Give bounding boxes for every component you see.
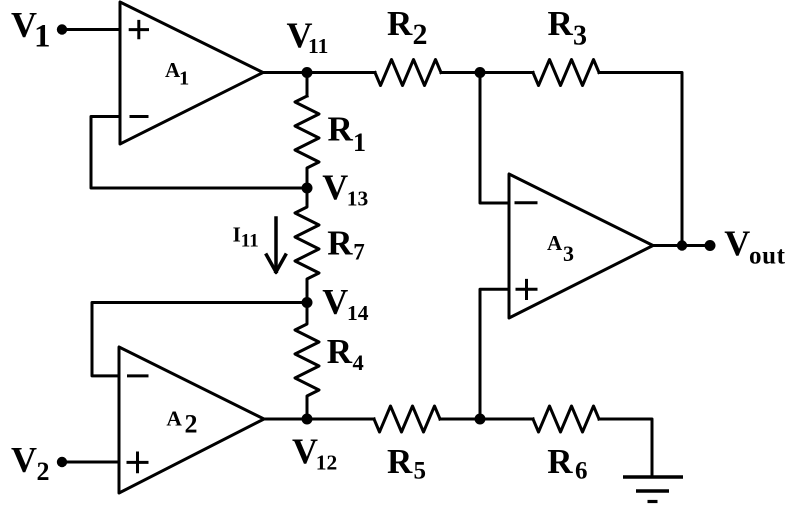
svg-text:out: out [749, 243, 786, 270]
svg-text:5: 5 [414, 458, 427, 485]
svg-text:11: 11 [308, 34, 328, 58]
svg-text:V: V [322, 281, 348, 321]
svg-text:6: 6 [575, 458, 588, 485]
svg-text:1: 1 [353, 128, 366, 157]
svg-text:2: 2 [37, 457, 50, 486]
svg-text:1: 1 [179, 68, 189, 90]
svg-text:A: A [166, 407, 182, 431]
svg-text:14: 14 [347, 301, 369, 325]
svg-text:R: R [328, 110, 354, 149]
svg-text:1: 1 [34, 18, 51, 54]
svg-text:R: R [327, 332, 353, 371]
svg-text:R: R [327, 224, 353, 263]
svg-text:V: V [322, 167, 348, 207]
svg-text:3: 3 [573, 20, 587, 51]
svg-text:R: R [387, 442, 413, 481]
svg-text:V: V [292, 431, 318, 471]
svg-text:R: R [548, 4, 574, 43]
svg-text:3: 3 [563, 241, 574, 266]
svg-text:R: R [547, 442, 573, 481]
svg-text:13: 13 [347, 187, 369, 211]
svg-text:I: I [233, 223, 241, 247]
svg-text:R: R [387, 4, 413, 43]
svg-text:V: V [11, 440, 37, 480]
svg-text:2: 2 [413, 18, 428, 51]
svg-text:V: V [724, 223, 750, 263]
svg-text:7: 7 [353, 240, 365, 265]
svg-text:12: 12 [316, 450, 338, 474]
svg-text:11: 11 [241, 231, 259, 252]
svg-text:A: A [547, 231, 563, 255]
svg-text:4: 4 [353, 350, 364, 375]
svg-text:2: 2 [185, 410, 198, 439]
